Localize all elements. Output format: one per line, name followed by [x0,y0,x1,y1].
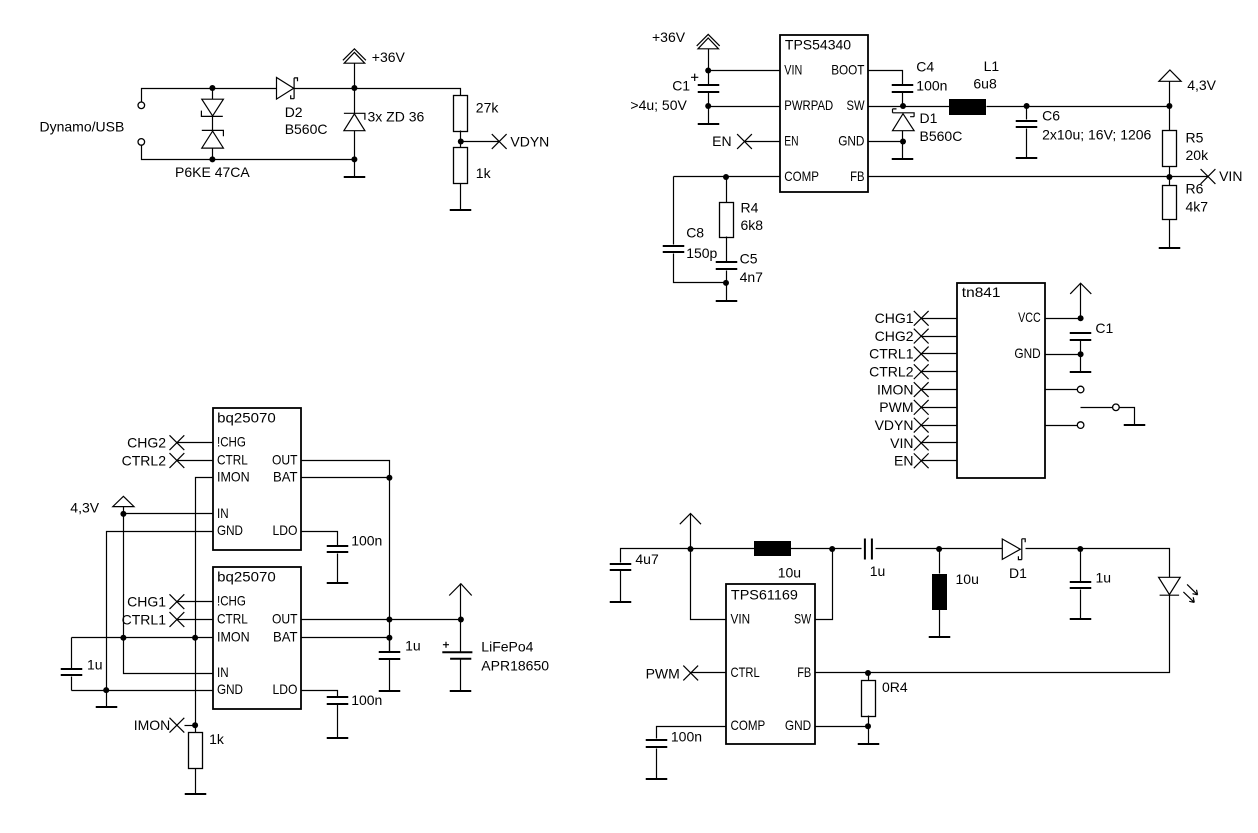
wire 4.3V node down to bottom IN [124,514,213,674]
svg-text:D2: D2 [285,104,303,120]
supply arrow above VCC [1080,284,1082,319]
wire VIN X to tn841 [922,442,958,444]
svg-text:EN: EN [894,453,913,469]
svg-text:GND: GND [785,717,811,733]
svg-text:10u: 10u [778,564,801,580]
svg-text:100n: 100n [351,692,382,708]
no-connect X PWM [683,666,698,681]
svg-text:6u8: 6u8 [973,76,997,92]
capacitor C1 (tn841 bypass) [1070,333,1092,340]
svg-text:+36V: +36V [372,49,406,65]
zener diode 3x ZD 36 [354,89,356,114]
svg-text:L1: L1 [984,58,1000,74]
ground below 1k divider [460,184,462,211]
junction FB node (driver) [865,670,871,676]
junction shunt inductor node [936,546,942,552]
wire GND pin (top) to left rail [107,532,213,691]
wire VCC pin to supply [1045,318,1081,320]
junction C6 tap [1024,103,1030,109]
wire D1 cathode to output node [1026,548,1081,550]
ground below COMP cap [656,749,658,780]
capacitor 1u (far left) [71,638,73,669]
wire IMON (top) to lower net [196,478,213,638]
junction FB node [1166,174,1172,180]
wire FB pin to divider [868,176,1209,178]
junction VDYN node [458,139,464,145]
svg-text:GND: GND [838,132,864,148]
svg-text:P6KE 47CA: P6KE 47CA [175,164,250,180]
inductor L1 [949,99,986,115]
svg-text:20k: 20k [1186,147,1210,163]
junction COMP node [723,174,729,180]
capacitor C4 (boot cap) [892,85,914,92]
svg-text:2x10u; 16V; 1206: 2x10u; 16V; 1206 [1042,126,1151,142]
junction 4.3V output node [1166,103,1172,109]
IC U5 TPS61169 body [726,584,815,744]
svg-text:100n: 100n [351,533,382,549]
svg-text:CTRL2: CTRL2 [869,364,914,380]
no-connect X VDYN [492,134,507,149]
svg-text:3x ZD 36: 3x ZD 36 [368,108,425,124]
op IC U1 TPS54340 body [780,35,868,192]
svg-text:TPS54340: TPS54340 [785,36,851,52]
ground below C6 [1026,129,1028,158]
svg-text:IN: IN [217,664,229,680]
resistor 1k (divider bottom) [460,142,462,148]
svg-text:OUT: OUT [272,451,298,467]
capacitor C6 [1026,107,1028,120]
svg-text:VIN: VIN [784,61,802,77]
svg-text:1u: 1u [87,657,103,673]
diode D1 (catch diode B560C) [893,109,915,117]
ground below tn841 C1 [1080,355,1082,372]
no-connect X VDYN (tn841) [914,418,929,433]
resistor R6 [1169,177,1171,186]
svg-text:0R4: 0R4 [882,679,908,695]
TVS diode P6KE 47CA (bidirectional suppressor) [212,89,214,100]
connector pad top (Dynamo/USB +) [138,102,145,109]
connector pad bottom (Dynamo/USB -) [138,139,145,146]
wire GND pin to C1 [1045,354,1081,356]
svg-text:IMON: IMON [217,629,250,645]
no-connect X CHG1 (tn841) [914,311,929,326]
svg-text:VDYN: VDYN [510,133,549,149]
junction comp ground node [723,280,729,286]
junction battery node [458,617,464,623]
wire inductor to SW node [791,548,862,550]
wire VDYN node to no-connect [461,141,500,143]
junction zener bottom [351,156,357,162]
wire CTRL2 X to CTRL pin [177,460,213,462]
svg-text:C1: C1 [1095,320,1113,336]
svg-text:PWM: PWM [646,665,680,681]
svg-text:SW: SW [794,610,812,626]
supply arrow (LED driver input) [690,514,692,549]
svg-text:TPS61169: TPS61169 [731,586,798,602]
wire 0R4 to GND node [868,716,870,727]
supply symbol +36V (right) [708,49,710,71]
wire 27k to VDYN node [460,131,462,142]
wire from top pad to top rail [142,89,213,103]
wire VIN pin to input node [691,549,727,620]
ground bar of switch [1124,424,1146,426]
junction BAT bottom node [386,635,392,641]
wire CHG2 X to tn841 [922,336,958,338]
supply symbol +36V (left) [354,64,356,89]
junction VIN node [705,68,711,74]
svg-text:SW: SW [847,97,866,113]
wire +36V node to divider top [355,89,461,96]
svg-text:!CHG: !CHG [217,434,246,450]
ground below C5 [726,283,728,301]
wire CHG1 X to !CHG pin [177,601,213,603]
wire LDO (top) to 100n [302,532,338,546]
svg-text:6k8: 6k8 [741,217,764,233]
wire VDYN X to tn841 [922,425,958,427]
switch lever and contact [1081,407,1113,409]
svg-text:!CHG: !CHG [217,593,246,609]
wire IMON X to tn841 [922,389,958,391]
capacitor 1u (output) [1080,549,1082,582]
wire BAT rail down to 1u cap [389,638,391,652]
resistor 1k (IMON) [189,733,203,769]
diode D2 (schottky B560C) [277,78,294,100]
svg-text:LDO: LDO [273,681,298,697]
ground below shunt inductor [939,610,941,638]
capacitor C8 [663,246,685,252]
capacitor C1 (polarized input cap) [708,71,710,85]
ground below top LDO cap [337,554,339,584]
no-connect X CTRL2 [170,453,185,468]
capacitor C5 [716,262,738,269]
svg-text:IMON: IMON [134,717,171,733]
junction 4.3V with IMON row [120,635,126,641]
pad circle switch pin A [1077,386,1084,393]
svg-text:1k: 1k [476,165,492,181]
capacitor 1u (series coupling) [865,539,872,560]
no-connect X VIN (tn841) [914,436,929,451]
junction driver GND node [865,723,871,729]
ground below battery-rail 1u [389,660,391,691]
svg-text:FB: FB [797,664,811,680]
svg-text:C1: C1 [672,78,690,94]
wire OUT pin (top) to battery rail [302,461,390,652]
svg-text:100n: 100n [916,77,947,93]
wire C1 to GND pin node [1080,341,1082,355]
wire series cap to shunt inductor [876,548,1003,550]
pad circle switch pin B [1077,422,1084,429]
svg-text:B560C: B560C [285,121,328,137]
ground below 4u7 [620,571,622,602]
svg-text:CTRL1: CTRL1 [869,346,914,362]
wire COMP pin to compensation net [674,176,780,178]
supply arrow above battery [460,584,462,620]
no-connect X EN (tn841) [914,453,929,468]
svg-text:CTRL2: CTRL2 [122,452,167,468]
junction IMON row at top-chip drop [192,635,198,641]
svg-text:IN: IN [217,505,229,521]
svg-text:VIN: VIN [731,610,751,626]
junction SW node [900,103,906,109]
resistor R4 [726,177,728,203]
wire PWM X to tn841 [922,407,958,409]
wire C1 to PWRPAD pin [709,106,780,108]
svg-text:CHG2: CHG2 [875,328,914,344]
no-connect X CTRL1 (tn841) [914,347,929,362]
svg-text:1u: 1u [1096,570,1112,586]
svg-text:PWRPAD: PWRPAD [784,97,833,113]
svg-text:CTRL: CTRL [217,451,248,467]
battery LiFePo4 APR18650 [460,620,462,652]
junction D1 anode ground node [900,139,906,145]
capacitor 4u7 [610,564,632,570]
svg-text:FB: FB [850,168,864,184]
svg-text:1u: 1u [405,638,421,654]
junction VCC node [1078,315,1084,321]
junction IMON sense node [192,722,198,728]
inductor 10u (series) [754,541,791,556]
svg-text:bq25070: bq25070 [217,568,276,584]
ground below R6 [1169,220,1171,249]
no-connect X CHG2 [170,435,185,450]
svg-text:GND: GND [217,522,243,538]
svg-text:CTRL: CTRL [217,610,248,626]
junction BAT top node [386,475,392,481]
svg-text:CTRL: CTRL [731,664,760,680]
svg-text:D1: D1 [920,110,938,126]
wire output node to LED [1081,549,1170,578]
wire GND row (bottom chip) [72,690,213,692]
svg-text:LiFePo4: LiFePo4 [481,639,533,655]
junction tn841 GND node [1078,351,1084,357]
svg-text:D1: D1 [1009,565,1027,581]
svg-text:EN: EN [712,133,731,149]
junction 4.3V IN node [120,511,126,517]
no-connect X PWM (tn841) [914,400,929,415]
svg-text:IMON: IMON [877,381,914,397]
resistor 0R4 [868,673,870,681]
wire CTRL2 X to tn841 [922,371,958,373]
svg-text:Dynamo/USB: Dynamo/USB [40,119,125,135]
wire LED cathode to FB return [816,596,1170,673]
junction PWRPAD node [705,103,711,109]
wire SW pin to inductor [868,106,950,108]
svg-text:EN: EN [784,132,798,148]
wire CHG1 X to tn841 [922,318,958,320]
no-connect X VIN net [1201,169,1216,184]
svg-text:1k: 1k [209,731,225,747]
wire input node to inductor [691,548,755,550]
wire BAT pin (bottom) [302,637,390,639]
wire L1 to 4.3V node [987,106,1170,108]
wire switch pin B [1045,425,1078,427]
junction bottom of TVS [209,156,215,162]
svg-text:100n: 100n [671,729,702,745]
wire CTRL1 X to tn841 [922,353,958,355]
svg-text:1u: 1u [870,563,886,579]
IC U4 bq25070 body (bottom) [213,567,301,709]
plus sign of C1 [691,74,698,81]
ground below D1 [902,142,904,160]
wire LDO (bottom) to 100n [302,691,338,697]
wire input rail to 4u7 [621,549,691,563]
svg-text:CHG1: CHG1 [127,594,166,610]
svg-text:OUT: OUT [272,610,298,626]
svg-text:CTRL1: CTRL1 [122,611,167,627]
svg-text:bq25070: bq25070 [217,409,276,425]
capacitor 100n (COMP) [646,740,668,747]
svg-text:GND: GND [217,681,243,697]
svg-text:VIN: VIN [1219,168,1242,184]
svg-text:4n7: 4n7 [740,269,764,285]
svg-text:B560C: B560C [920,128,963,144]
svg-text:VCC: VCC [1018,309,1041,325]
ground below bottom LDO cap [337,705,339,739]
svg-text:150p: 150p [686,245,717,261]
svg-text:C4: C4 [916,58,934,74]
svg-text:COMP: COMP [731,717,766,733]
junction driver input node [688,546,694,552]
junction GND rail node [103,687,109,693]
svg-text:BAT: BAT [273,629,298,645]
no-connect X IMON [170,718,185,733]
IC U2 tn841 body [957,283,1045,478]
svg-text:BOOT: BOOT [831,61,865,77]
wire EN X to EN pin [745,141,780,143]
LED D (emitting diode) [1159,577,1181,594]
svg-text:APR18650: APR18650 [481,658,549,674]
no-connect X CHG1 [170,594,185,609]
wire TVS bottom to zener anode [213,159,355,161]
capacitor 100n (top LDO) [327,546,349,552]
IC U3 bq25070 body (top) [213,408,301,550]
inductor 10u (shunt) [939,549,941,574]
svg-text:IMON: IMON [217,469,250,485]
svg-text:PWM: PWM [879,399,913,415]
wire SW node down to SW pin [816,549,833,620]
wire C4 to SW node [902,93,904,107]
wire R4 to C5 [726,237,728,263]
svg-text:C8: C8 [686,224,704,240]
ground bar below battery [450,690,472,692]
wire from bottom pad to bottom rail [142,146,213,160]
junction +36V node [351,85,357,91]
svg-text:>4u; 50V: >4u; 50V [630,97,687,113]
ground below output 1u [1080,590,1082,620]
junction LED output node [1077,546,1083,552]
svg-text:COMP: COMP [784,168,819,184]
svg-text:R5: R5 [1186,129,1204,145]
capacitor 100n (bottom LDO) [327,697,349,704]
wire 4.3V to IN pin (top) [124,513,213,515]
svg-text:VIN: VIN [890,435,913,451]
no-connect X CHG2 (tn841) [914,329,929,344]
wire +36V to VIN pin [709,70,780,72]
svg-text:CHG1: CHG1 [875,310,914,326]
wire down to C8 [673,177,675,245]
svg-text:C6: C6 [1042,107,1060,123]
svg-text:R6: R6 [1186,181,1204,197]
wire R5 to FB node [1169,167,1171,177]
wire GND pin to 0R4 [816,726,869,728]
junction OUT row crossing [386,617,392,623]
svg-text:27k: 27k [476,100,500,116]
svg-text:4,3V: 4,3V [1187,77,1216,93]
wire IMON net down to 1k [195,638,197,733]
svg-text:BAT: BAT [273,469,298,485]
svg-text:tn841: tn841 [962,284,1001,300]
svg-text:LDO: LDO [273,522,298,538]
ground below zener [354,160,356,177]
wire OUT pin (bottom) to battery node [302,619,461,621]
svg-text:4,3V: 4,3V [70,500,99,516]
wire CHG2 X to !CHG pin [177,442,213,444]
plus sign of battery [443,642,449,648]
wire switch pin A [1045,389,1078,391]
wire BOOT pin to C4 [868,71,903,85]
wire IMON row to pin (bottom) [72,637,213,639]
supply symbol 4,3V (output) [1169,82,1171,107]
ground below IMON 1k [195,769,197,795]
svg-text:+36V: +36V [652,29,686,45]
svg-text:CHG2: CHG2 [127,435,166,451]
wire C5 to ground node [726,271,728,283]
wire CTRL1 X to CTRL pin [177,619,213,621]
svg-text:C5: C5 [740,250,758,266]
junction top of TVS [209,85,215,91]
wire C8 bottom to comp ground node [674,254,727,283]
supply symbol 4,3V (chargers) [123,507,125,514]
ground below GND rail [106,691,108,708]
wire COMP pin to 100n [657,727,727,739]
svg-text:GND: GND [1014,345,1040,361]
wire EN X to tn841 [922,460,958,462]
no-connect X CTRL1 [170,612,185,627]
svg-text:R4: R4 [741,200,759,216]
ground below C1 [708,107,710,124]
no-connect X IMON (tn841) [914,382,929,397]
wire BAT pin (top) [302,477,390,479]
junction SW node (driver) [829,546,835,552]
svg-text:10u: 10u [956,571,979,587]
svg-text:4k7: 4k7 [1186,198,1209,214]
wire D2 cathode to +36V node [295,88,355,90]
svg-text:4u7: 4u7 [635,551,659,567]
svg-text:VDYN: VDYN [875,417,914,433]
no-connect X EN [737,134,752,149]
resistor R5 [1169,107,1171,131]
capacitor 1u (battery rail) [379,652,401,659]
diode D1 (LED driver schottky) [1002,539,1020,559]
ground below 0R4 [868,727,870,744]
no-connect X CTRL2 (tn841) [914,364,929,379]
resistor 27k [454,96,468,132]
wire PWM X to CTRL pin [691,672,727,674]
wire TVS top to D2 anode [213,88,277,90]
wire GND pin to D1 anode [868,141,903,143]
